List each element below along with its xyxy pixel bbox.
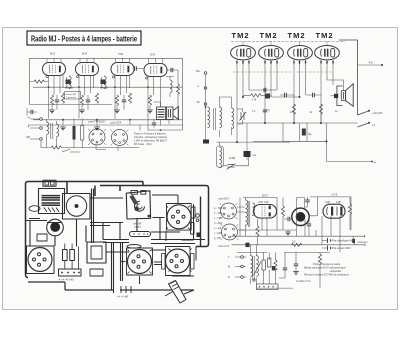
coil L4 — [220, 147, 222, 160]
terminal 4,5 dot — [381, 64, 383, 66]
small box part — [37, 234, 47, 241]
coil L3b — [232, 121, 234, 129]
transformer T3 secondary — [57, 124, 59, 137]
socket D box — [127, 248, 153, 275]
ground G6 — [94, 127, 100, 130]
svg-text:-4: -4 — [373, 161, 376, 165]
coil L5 — [170, 80, 172, 93]
wire blob — [205, 137, 207, 140]
tube V2 — [76, 63, 99, 76]
resistor R8 — [148, 95, 151, 105]
wire G6 — [96, 125, 98, 127]
ground G1 — [49, 110, 55, 113]
coil L1 — [208, 107, 210, 120]
wire mid bus — [33, 119, 183, 121]
right small part 2 — [191, 223, 195, 235]
wire C34 — [133, 68, 145, 70]
socket S2 — [111, 130, 129, 146]
wire socket B link — [152, 195, 178, 218]
svg-text:Pile tension 80V: Pile tension 80V — [332, 246, 351, 250]
variable capacitor CV — [240, 112, 247, 121]
fuse box — [43, 180, 56, 186]
junction ring — [253, 279, 255, 281]
svg-text:2 gammes: 2 gammes — [66, 97, 77, 99]
switch SW2 dot — [368, 110, 370, 112]
svg-text:d - ZG4: d - ZG4 — [214, 222, 223, 225]
svg-text:culot ZG4: culot ZG4 — [110, 121, 122, 125]
label drop values — [252, 109, 338, 114]
wire R12 — [166, 70, 178, 119]
wire R21 — [243, 90, 300, 97]
svg-text:Ca: Ca — [253, 153, 257, 157]
speaker bracket — [337, 86, 343, 106]
wire L2 L3 tops — [220, 97, 232, 137]
capacitor C13 — [264, 88, 266, 92]
socket Sa — [220, 203, 238, 219]
wire V1 drops — [237, 64, 249, 143]
wire C2 — [87, 95, 89, 110]
wire bottom bus — [256, 287, 293, 289]
wire grid dashes — [233, 71, 333, 73]
wire V4 leads — [148, 77, 161, 119]
speaker input cap — [334, 94, 338, 98]
HF transformer stripes b — [42, 203, 61, 205]
transformer core TA — [214, 108, 216, 130]
capacitor C6 — [152, 123, 156, 125]
fuse box cell 2 — [51, 182, 55, 185]
wire C12 — [306, 94, 322, 96]
wire earpiece — [297, 198, 305, 210]
capacitor C12 — [313, 93, 315, 97]
wire V4 drops — [321, 64, 333, 124]
svg-text:D: D — [228, 275, 230, 279]
wire top rail — [231, 41, 345, 43]
tube TM2 no4 — [315, 46, 340, 60]
resistor Rd3 — [256, 226, 259, 236]
svg-text:4,5: 4,5 — [369, 61, 374, 65]
resistor r2 vertical — [70, 250, 75, 261]
svg-text:Bande passante EO7 radiophoniq: Bande passante EO7 radiophonique — [304, 266, 346, 270]
wire stub V2 — [80, 58, 94, 62]
wire G3 — [116, 106, 118, 111]
variable capacitor CdR — [227, 164, 236, 170]
resistor Rg — [302, 129, 306, 136]
IF transformer T2 blob — [101, 80, 106, 85]
socket B — [167, 205, 191, 229]
capacitor C1 — [55, 100, 59, 102]
terminal strip dots — [62, 272, 79, 274]
output transformer T4 stripes — [158, 110, 165, 118]
svg-text:culot EO7: culot EO7 — [218, 197, 230, 201]
wire left links — [26, 221, 48, 247]
resistor Rd1 — [281, 206, 284, 216]
coil L1b — [208, 120, 210, 128]
resistor R10 — [81, 126, 84, 141]
svg-text:écouteur: écouteur — [358, 240, 368, 244]
small resistor part — [29, 219, 40, 221]
wire bus y252 — [237, 251, 330, 253]
wire low bus — [253, 141, 371, 161]
wire R10 — [81, 119, 83, 149]
potentiometer arrow — [254, 262, 262, 276]
terminal strip D dots — [260, 286, 274, 288]
small box under transformer — [90, 269, 103, 276]
wire Ca — [246, 123, 248, 160]
svg-text:F cadre CY2: F cadre CY2 — [296, 279, 311, 283]
title box — [27, 31, 141, 45]
svg-text:MJ3: MJ3 — [50, 52, 55, 56]
svg-text:antipodes: antipodes — [330, 269, 342, 273]
wire V2 drops — [265, 64, 277, 124]
svg-text:-40: -40 — [196, 100, 200, 104]
CdR coil box — [216, 146, 223, 167]
wire socket D drop — [121, 262, 163, 285]
svg-text:CY2: CY2 — [332, 192, 338, 196]
potentiometer knob — [47, 219, 64, 236]
svg-text:ZG4: ZG4 — [150, 53, 156, 57]
socket D — [128, 250, 152, 274]
fuse box cell 1 — [45, 182, 49, 185]
svg-text:80+: 80+ — [196, 69, 201, 73]
transformer TD primary b — [246, 213, 248, 226]
capacitor C11 — [285, 93, 287, 97]
svg-text:Pile chauffage 4V: Pile chauffage 4V — [332, 239, 353, 243]
wire TD2 — [251, 245, 257, 284]
wire C5 — [27, 108, 37, 116]
transformer TD core — [248, 201, 250, 227]
wire chassis inner verticals — [86, 218, 137, 242]
resistor rd5 fill — [272, 266, 276, 270]
coil L2 — [220, 107, 222, 120]
tube D1 plate a — [269, 206, 271, 210]
variable cap wedge — [130, 195, 139, 205]
IF transformer T2 core — [100, 77, 108, 88]
resistor R21 — [251, 94, 261, 97]
capacitor C34 — [135, 66, 137, 70]
tube TM2 no3 — [288, 46, 313, 60]
power transformer inner — [91, 246, 102, 259]
speaker frame — [167, 107, 174, 120]
socket C — [166, 249, 190, 273]
switch SW3 dot — [368, 122, 370, 124]
wire G1 — [51, 106, 53, 111]
output transformer T4 — [157, 107, 166, 120]
svg-text:transfos - Récepteur batterie: transfos - Récepteur batterie — [134, 135, 167, 139]
svg-text:Poste 4 lampes à cadre: Poste 4 lampes à cadre — [313, 262, 341, 266]
wire C1 — [56, 95, 58, 110]
resistor strip dots — [134, 233, 148, 235]
transformer TD2 primary b — [251, 268, 253, 276]
variable cap spiral inner — [137, 204, 142, 209]
terminal 4,5 — [358, 64, 382, 66]
speaker driver bar — [342, 92, 344, 99]
IF transformer T1 blob — [66, 80, 71, 85]
switch SW3 — [358, 123, 369, 127]
lead dots V1 — [237, 61, 249, 64]
tube D2 grid arc — [326, 207, 329, 215]
tube D1 plate b — [269, 212, 271, 216]
earpiece core — [296, 212, 306, 222]
socket D ticks — [128, 250, 152, 274]
capacitor C5 — [31, 110, 33, 114]
wire top right corner — [339, 40, 358, 115]
wire right links — [166, 204, 196, 276]
wire top box drop — [67, 182, 143, 197]
terminal column t3 — [241, 276, 244, 279]
wire top bus — [240, 197, 351, 236]
small oval under strip — [127, 245, 141, 249]
ground Gd2 — [293, 272, 299, 275]
svg-text:CdP: CdP — [336, 200, 341, 204]
wire right rail — [182, 58, 184, 130]
capacitor ecouteur — [352, 239, 355, 243]
wire C3 — [123, 95, 125, 110]
ground G4 — [147, 110, 153, 113]
pointer plug — [169, 281, 187, 304]
wire G5 — [62, 125, 64, 127]
wire left rail — [29, 58, 31, 104]
svg-text:c - TM2: c - TM2 — [214, 217, 223, 220]
tube D1 electrodes — [262, 207, 265, 217]
speaker horn B — [346, 84, 354, 107]
wire resistor leads — [65, 244, 79, 270]
wire V3 leads — [115, 76, 130, 119]
right dark part — [197, 233, 201, 238]
wire mid buses — [240, 207, 340, 252]
terminal -4 — [371, 161, 373, 163]
svg-text:CV: CV — [238, 107, 242, 111]
resistor R2 — [50, 95, 53, 105]
antenna terminal A1 — [204, 72, 207, 75]
wire left rail — [205, 74, 207, 137]
svg-text:+4 -4 +80: +4 -4 +80 — [117, 295, 129, 299]
svg-text:TM2: TM2 — [118, 52, 124, 56]
svg-text:0,5: 0,5 — [292, 240, 296, 244]
wire R1 — [30, 81, 49, 83]
svg-text:BF finale : ZG4: BF finale : ZG4 — [134, 142, 152, 146]
socket B box — [167, 204, 192, 231]
svg-text:MJ4: MJ4 — [82, 52, 87, 56]
wire low bus — [28, 124, 183, 126]
variable cap blob — [134, 207, 139, 212]
wire bottom bus — [41, 141, 140, 148]
wire T3 — [47, 119, 57, 148]
capacitor C14 — [263, 110, 267, 112]
ground G3 — [114, 110, 120, 113]
switch SW1 — [62, 149, 80, 152]
svg-text:CdP: CdP — [325, 200, 330, 204]
terminal strip D — [257, 284, 279, 290]
resistor strip mid — [130, 232, 151, 237]
grid cap V2 — [76, 75, 78, 77]
tube TM2 no1 — [231, 46, 256, 60]
resistor R3 — [61, 93, 64, 103]
socket C ticks — [169, 249, 192, 272]
wire R9 — [73, 119, 75, 149]
ground Gd1 — [285, 232, 291, 235]
transformer TD2 secondary b — [256, 268, 258, 276]
junction dots A — [48, 86, 162, 131]
wire plug lead — [165, 290, 194, 296]
antenna terminal A3 — [204, 103, 207, 106]
tube D1 outline — [254, 205, 277, 219]
capacitor C2 — [86, 100, 90, 102]
resistor R5 — [95, 93, 98, 103]
speaker horn — [173, 107, 179, 120]
speaker driver — [341, 91, 345, 101]
IF transformer T1 coil — [69, 76, 71, 89]
wire V2 leads — [79, 75, 94, 119]
wire V1 leads — [49, 75, 64, 119]
wire Rd3 — [257, 219, 259, 245]
wire G4 — [149, 106, 151, 111]
gang capacitor box — [63, 194, 91, 220]
transformer TD2 primary — [251, 256, 253, 269]
IF transformer T2 coil — [104, 76, 106, 89]
pointer plug stripes — [171, 281, 180, 290]
right ring 1 — [196, 214, 200, 218]
wire top bus — [30, 57, 183, 59]
coil L4b — [220, 160, 222, 168]
junction dots B — [205, 96, 328, 143]
wire C13 — [266, 89, 277, 91]
HF transformer hatch — [44, 208, 59, 213]
wire Rd7 — [319, 252, 321, 288]
coil L2b — [220, 120, 222, 128]
chassis outline left — [26, 182, 144, 278]
svg-text:e - self: e - self — [214, 227, 222, 230]
transformer TD2 core — [253, 256, 255, 280]
wire C11 — [280, 94, 295, 96]
wire battery — [322, 236, 355, 248]
svg-text:-4 +4 -40 +80: -4 +4 -40 +80 — [58, 278, 74, 282]
wire bus trio — [103, 240, 205, 244]
wire stub V4 — [149, 58, 163, 63]
wire V3 drops — [294, 64, 306, 124]
wire main bus — [237, 122, 358, 124]
svg-text:Remise encadre EO7 BF de puiss: Remise encadre EO7 BF de puissance — [304, 273, 349, 277]
variable cap corner dot — [148, 215, 150, 217]
transformer T3 primary — [47, 122, 49, 135]
resistor r1 vertical — [63, 250, 68, 261]
wire stub V1 — [47, 58, 61, 62]
resistor R1 — [34, 80, 44, 83]
capacitor Cd3 — [283, 268, 287, 270]
potentiometer knob center — [50, 222, 60, 232]
resistor R12 — [176, 84, 179, 94]
antenna terminal A2 — [204, 87, 207, 90]
wire rd leads — [264, 252, 276, 284]
resistor rd4 — [262, 260, 265, 270]
coupling box label — [65, 92, 81, 100]
resistor rd5 — [268, 258, 271, 267]
gang capacitor rotor — [66, 196, 86, 216]
wire S1 link — [96, 144, 118, 152]
wire C10 — [265, 95, 273, 97]
wire speaker — [327, 80, 344, 91]
capacitor C10 dark — [265, 94, 270, 99]
capacitor C7 — [171, 68, 173, 72]
wire bus pair mid — [47, 223, 123, 226]
ground blob — [203, 140, 209, 144]
resistor R6 — [115, 95, 118, 105]
wire center links — [47, 189, 94, 247]
wire output — [140, 102, 183, 131]
resistor R4 — [80, 95, 83, 105]
chassis top bus — [100, 186, 209, 247]
capacitor C3 — [122, 100, 126, 102]
grid cap V3 — [112, 76, 114, 78]
svg-text:CHT2: CHT2 — [134, 225, 141, 229]
battery terminal B3 — [40, 138, 43, 141]
wire Cd3 — [279, 252, 285, 278]
earpiece outer — [292, 208, 309, 225]
tube D2 outline — [323, 204, 345, 218]
right ring 2 — [196, 219, 199, 222]
grid cap V4 — [145, 77, 147, 79]
wire TD — [246, 198, 253, 237]
svg-text:TM2: TM2 — [316, 31, 334, 40]
tube V4 — [144, 64, 167, 77]
terminal column t1 — [241, 256, 244, 259]
tube D2 electrode 2 — [340, 207, 342, 216]
transformer TD2 secondary — [256, 256, 258, 269]
resistor Rd2 zigzag — [348, 204, 351, 214]
svg-text:Rg: Rg — [308, 132, 312, 136]
wire gang cap drop — [77, 198, 181, 252]
battery terminal B1 — [40, 118, 43, 121]
svg-text:g - HP: g - HP — [214, 237, 221, 240]
wire Cd1 — [305, 197, 308, 207]
wire terminal leads — [235, 257, 246, 277]
legend text column — [214, 207, 223, 240]
gang capacitor axle — [75, 205, 77, 207]
resistor rd6 zig — [274, 260, 277, 270]
socket A box — [27, 246, 55, 274]
lead dots V4 — [321, 61, 333, 64]
resistor R7 — [128, 93, 131, 103]
HF transformer stripes a — [42, 196, 61, 200]
wire bottom long — [28, 282, 194, 290]
socket C tab left — [162, 254, 166, 270]
tube V1 — [43, 63, 66, 76]
wire bus links — [63, 119, 130, 126]
svg-text:TM2: TM2 — [288, 31, 306, 40]
svg-text:+80: +80 — [26, 135, 31, 139]
bottom tick group — [121, 286, 131, 293]
right small part 1 — [191, 207, 195, 218]
svg-text:f - CdR: f - CdR — [214, 232, 222, 235]
wire Rd1 — [282, 198, 284, 231]
transformer TD primary — [246, 200, 248, 213]
svg-text:Poste à 4 lampes à liaisons: Poste à 4 lampes à liaisons — [134, 132, 166, 136]
socket B ticks — [166, 206, 190, 230]
battery cell 1 — [328, 238, 331, 243]
svg-text:CdP CdP: CdP CdP — [258, 200, 269, 204]
speaker bars — [168, 109, 170, 118]
svg-text:TM2: TM2 — [232, 31, 250, 40]
socket A — [28, 248, 52, 272]
wire stub c14 — [265, 112, 321, 123]
IF transformer T1 core — [65, 77, 73, 88]
svg-text:+40 à 80: +40 à 80 — [372, 111, 383, 115]
terminal strip — [59, 269, 82, 276]
small oval part — [29, 206, 40, 212]
svg-text:2 MF et détectrice TM B&O7: 2 MF et détectrice TM B&O7 — [134, 139, 167, 143]
capacitor Cd5 — [307, 224, 311, 226]
capacitor Cd4 — [294, 264, 298, 266]
svg-text:liaison MF: liaison MF — [66, 94, 77, 96]
